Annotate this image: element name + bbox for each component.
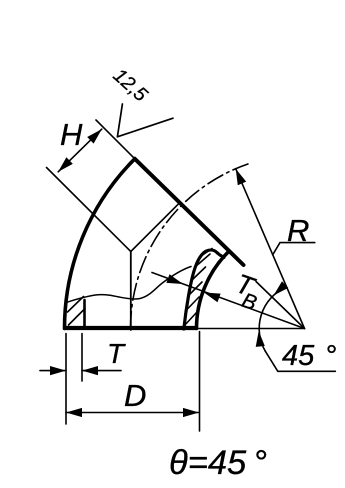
TB arrow left (166, 274, 183, 284)
elbow inclined end face (135, 159, 244, 265)
vertical centerline (130, 252, 132, 331)
T arrow right (82, 366, 98, 375)
svg-text:45 °: 45 ° (282, 340, 336, 372)
T extension line inner (81, 334, 83, 382)
break line (wavy) (66, 267, 191, 303)
elbow outer arc (65, 159, 135, 329)
section band bore edge (184, 250, 224, 329)
R leader (273, 243, 315, 255)
H dimension line (58, 129, 102, 172)
angle dimension arc (259, 287, 285, 351)
H arrow lower (58, 157, 73, 172)
H arrow upper (87, 129, 102, 144)
T extension line outer (65, 334, 67, 425)
T arrow left (50, 366, 66, 375)
svg-text:D: D (124, 378, 146, 413)
svg-text:H: H (60, 117, 83, 152)
elbow bottom end face (65, 326, 197, 330)
label TB (228, 268, 265, 315)
inclined face extension line (256, 282, 305, 329)
roughness symbol check (117, 104, 173, 137)
D arrow left (66, 408, 82, 417)
R dimension line (236, 169, 305, 329)
inclined axis segment (131, 203, 179, 251)
D extension line right (199, 332, 201, 432)
hatching band section (184, 249, 212, 327)
bottom face extension line (197, 328, 305, 330)
R arrow at centerline arc (236, 169, 247, 186)
face extension line upper-left (96, 120, 135, 159)
svg-text:R: R (287, 213, 309, 248)
T dimension line left tail (40, 370, 66, 372)
angle arc arrow (256, 331, 265, 347)
D arrow right (183, 408, 199, 417)
T dimension line right tail (82, 370, 121, 372)
D dimension line (66, 412, 199, 414)
TB arrow right (204, 293, 221, 303)
centerline arc (dash-dot) (131, 164, 248, 329)
45deg leader (265, 351, 335, 371)
svg-text:T: T (107, 338, 126, 369)
angle arc upper arrow (274, 281, 289, 295)
bore wall line left end (83, 300, 86, 327)
TB dimension line (152, 273, 305, 329)
svg-text:θ=45 °: θ=45 ° (169, 444, 267, 482)
elbow inner arc (196, 252, 228, 328)
hatching left wall section (68, 297, 86, 326)
H extension line through vertex (47, 168, 131, 252)
